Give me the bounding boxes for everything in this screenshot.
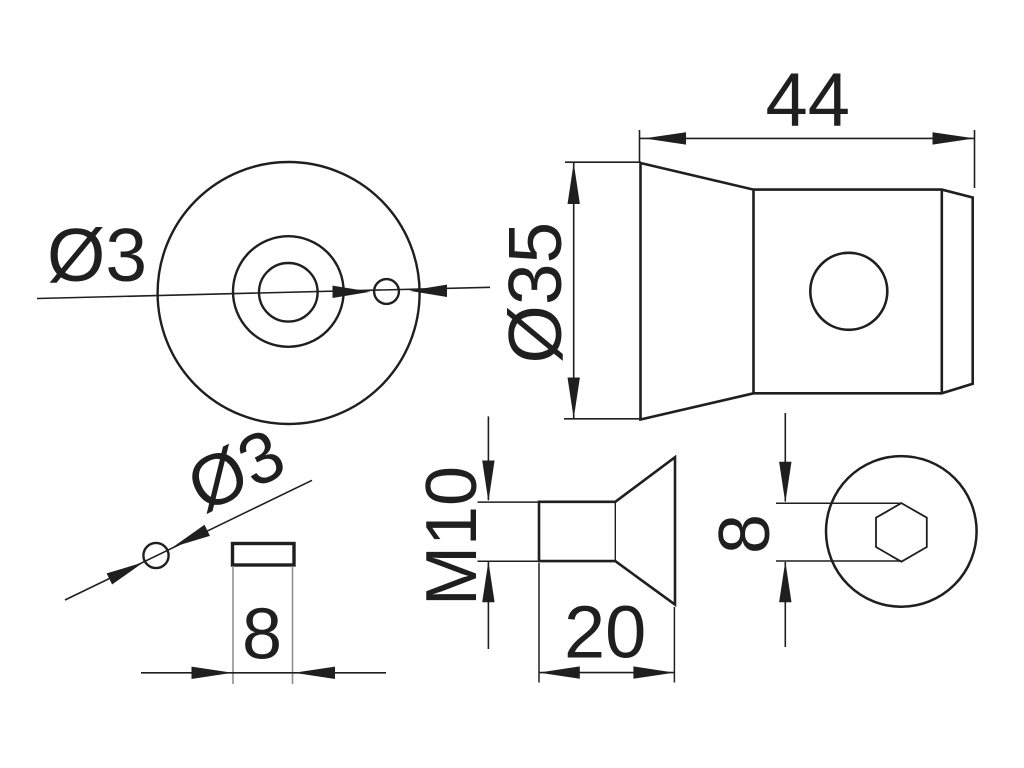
svg-text:8: 8 xyxy=(705,514,785,554)
detail small circle xyxy=(143,543,168,568)
screw head trapezoid xyxy=(615,457,675,604)
side view outline xyxy=(641,163,973,420)
dimension 8 upper line right view xyxy=(784,413,786,502)
screw junction line xyxy=(614,502,616,561)
dimension 8 lower line right view xyxy=(784,562,786,647)
front view inner circle xyxy=(259,263,318,322)
svg-text:8: 8 xyxy=(242,595,282,675)
dimension 8 line bottom-left xyxy=(141,672,386,674)
dimension M10 upper line xyxy=(487,416,489,500)
svg-text:20: 20 xyxy=(564,591,646,674)
front view middle circle xyxy=(233,236,344,347)
dimension 35 top extension line xyxy=(565,161,641,163)
dimension 20 right arrow xyxy=(633,666,674,678)
dimension 44 right extension line xyxy=(974,130,976,188)
side view hole circle xyxy=(810,253,887,330)
detail pin rectangle xyxy=(233,544,295,566)
dimension 35 bottom arrow xyxy=(568,378,580,419)
dimension 8 right arrow xyxy=(294,667,335,679)
svg-text:Ø35: Ø35 xyxy=(493,222,577,364)
screw body rectangle xyxy=(539,502,615,561)
front view outer circle xyxy=(158,162,420,424)
dimension 44 line xyxy=(640,137,975,139)
dimension 20 left arrow xyxy=(539,666,580,678)
dimension 20 left extension line xyxy=(538,563,540,683)
dimension M10 top arrow xyxy=(482,461,494,502)
arrow right-pointing at hole left edge xyxy=(333,286,371,298)
hex bottom extension line xyxy=(776,560,901,562)
dimension 20 line xyxy=(539,672,675,674)
arrow left-pointing at hole right edge xyxy=(409,285,447,297)
dimension 35 bottom extension line xyxy=(564,418,642,420)
dimension diameter 35 line xyxy=(573,163,575,419)
dimension 35 top arrow xyxy=(568,163,580,204)
dimension 20 right extension line xyxy=(673,607,675,683)
dimension 44 left extension line xyxy=(639,130,641,162)
dimension 8 bottom arrow right view xyxy=(779,561,791,602)
dimension M10 bottom arrow xyxy=(482,561,494,602)
detail arrow down-left xyxy=(173,525,210,547)
front view small hole circle xyxy=(374,279,399,304)
leader line for hole diameter xyxy=(37,287,490,298)
detail arrow up-right xyxy=(107,562,144,584)
dimension 8 top arrow right view xyxy=(779,462,791,503)
dimension 8 left arrow xyxy=(192,667,233,679)
svg-text:44: 44 xyxy=(766,58,851,143)
back view circle xyxy=(826,456,977,607)
back view hex socket xyxy=(876,503,927,562)
detail right extension line xyxy=(292,566,294,684)
dimension 44 left arrow xyxy=(644,132,686,144)
detail leader line diagonal xyxy=(65,480,312,600)
M10 top extension line xyxy=(478,501,540,503)
hex top extension line xyxy=(776,502,901,504)
svg-text:M10: M10 xyxy=(412,466,492,606)
dimension M10 lower line xyxy=(487,562,489,649)
side view junction line cylinder-cap xyxy=(940,190,943,394)
side view junction line cone-cylinder xyxy=(752,190,755,394)
dimension 44 right arrow xyxy=(933,132,975,144)
svg-text:Ø3: Ø3 xyxy=(47,213,147,297)
detail left extension line xyxy=(232,566,234,684)
M10 bottom extension line xyxy=(478,560,540,562)
